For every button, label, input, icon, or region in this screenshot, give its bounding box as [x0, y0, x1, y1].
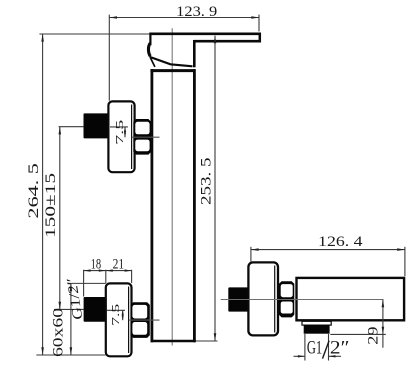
bottom fitting: wall-centre leader line — [54, 308, 84, 310]
svg-text:126. 4: 126. 4 — [318, 233, 363, 250]
body left edge — [150, 69, 153, 342]
dimension 150±15 (left) — [42, 127, 61, 310]
top fitting: plate inner edge line — [131, 105, 133, 170]
extension line outlet bottom for 29 — [330, 333, 386, 335]
top fitting: escutcheon plate — [108, 101, 134, 172]
body top edge — [150, 69, 195, 72]
svg-text:G1: G1 — [307, 338, 322, 358]
handle grip left edge — [149, 33, 151, 46]
svg-text:21: 21 — [113, 257, 125, 273]
side view: outlet flange — [302, 321, 331, 325]
label G1/2" (bottom-left fitting thread) — [64, 278, 87, 320]
top fitting: nut centreline — [132, 136, 160, 138]
top fitting: wall-centre leader line — [59, 126, 84, 128]
side view: hex nut — [279, 281, 294, 317]
svg-text:2″: 2″ — [330, 338, 350, 358]
extension line top (lever top) — [39, 33, 149, 35]
handle grip bottom and collar top — [150, 57, 193, 66]
extension line at block/plate joint — [105, 270, 107, 283]
side view: valve body — [297, 278, 405, 320]
side view centreline — [221, 299, 384, 301]
dimension 264.5 (far left) — [25, 34, 44, 355]
dimension 18 / 21 (bottom fitting) — [84, 257, 132, 273]
dimension G1/2" (outlet thread) — [294, 334, 350, 361]
svg-text:60x60: 60x60 — [50, 307, 67, 357]
svg-text:150±15: 150±15 — [42, 173, 59, 238]
svg-text:18: 18 — [91, 257, 102, 273]
bottom fitting: wall eccentric block — [84, 297, 106, 322]
handle lever right end cap — [259, 33, 262, 43]
side view: wall eccentric block — [228, 287, 249, 311]
svg-text:253. 5: 253. 5 — [197, 157, 214, 205]
svg-text:7.5: 7.5 — [111, 304, 122, 326]
extension line at plate outer face — [131, 270, 133, 283]
bottom fitting: escutcheon plate — [106, 283, 132, 356]
handle lever underside — [194, 40, 261, 43]
bottom fitting: nut centreline — [129, 319, 160, 321]
extension line at bottom plate top — [68, 282, 106, 284]
extension line left of 123.9 — [108, 15, 110, 101]
dimension 123.9 (top) — [109, 3, 259, 20]
extension line left of 126.4 — [250, 247, 252, 262]
top fitting: 7.5 offset tick line — [110, 126, 128, 128]
body bottom edge — [151, 340, 196, 343]
dimension 29 (outlet drop) — [365, 300, 385, 348]
bottom fitting: 7.5 offset tick line — [107, 309, 125, 311]
side view: outlet threaded band — [304, 325, 330, 334]
svg-text:123. 9: 123. 9 — [176, 3, 217, 20]
top fitting: wall eccentric block — [84, 113, 109, 138]
extension line right of 123.9 — [258, 15, 260, 32]
dimension 60x60 (bottom plate size) — [50, 284, 73, 357]
handle step-down back edge — [193, 40, 196, 67]
top fitting: hex nut — [133, 119, 151, 155]
dimension 253.5 (right of body) — [197, 36, 216, 341]
handle grip left bulge — [148, 43, 150, 56]
bottom fitting: hex nut — [131, 302, 150, 338]
bottom fitting: dimension 7.5 — [111, 304, 124, 326]
extension line right of 126.4 — [404, 247, 406, 276]
side view: escutcheon plate — [248, 262, 278, 335]
dimension 126.4 (side view top) — [251, 233, 405, 251]
extension of body bottom for 253.5 — [196, 340, 218, 342]
side view: plate inner edge line — [274, 266, 276, 333]
svg-text:264. 5: 264. 5 — [25, 163, 42, 219]
extension line at block left face — [83, 270, 85, 297]
svg-text:7.5: 7.5 — [115, 120, 126, 145]
handle lever top edge — [149, 32, 261, 35]
body centerline — [171, 28, 173, 345]
body right edge — [193, 69, 196, 342]
collar left edge — [150, 58, 155, 67]
svg-text:29: 29 — [365, 326, 382, 344]
extension line bottom (plate bottom) — [36, 354, 105, 356]
top fitting: dimension 7.5 — [115, 120, 126, 145]
bottom fitting: plate inner edge line — [128, 287, 130, 354]
